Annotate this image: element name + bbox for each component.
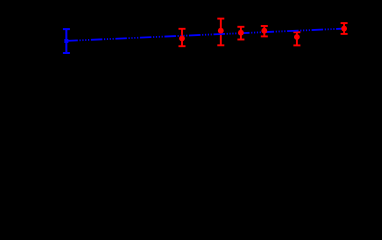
red marker P6	[341, 26, 347, 32]
dashed blue fit line	[66, 29, 344, 41]
errorbar stem P3	[240, 27, 242, 40]
errorbar stem P2	[220, 19, 222, 46]
blue square marker B0	[64, 39, 68, 43]
blue errorbar stem B0	[65, 29, 67, 53]
red marker P1	[179, 36, 185, 42]
errorbar caps P4	[261, 26, 268, 36]
red marker P3	[238, 30, 244, 36]
red marker P4	[261, 28, 267, 34]
blue errorbar caps B0	[63, 29, 70, 53]
red marker P5	[294, 34, 300, 40]
errorbar caps P5	[293, 32, 300, 45]
errorbar caps P1	[179, 29, 186, 46]
errorbar caps P2	[217, 19, 224, 46]
red marker P2	[218, 28, 224, 34]
errorbar caps P3	[237, 27, 244, 40]
errorbar stem P1	[181, 29, 183, 46]
errorbar stem P6	[343, 23, 345, 34]
errorbar stem P4	[263, 26, 265, 36]
errorbar stem P5	[296, 32, 298, 45]
errorbar caps P6	[341, 23, 348, 34]
